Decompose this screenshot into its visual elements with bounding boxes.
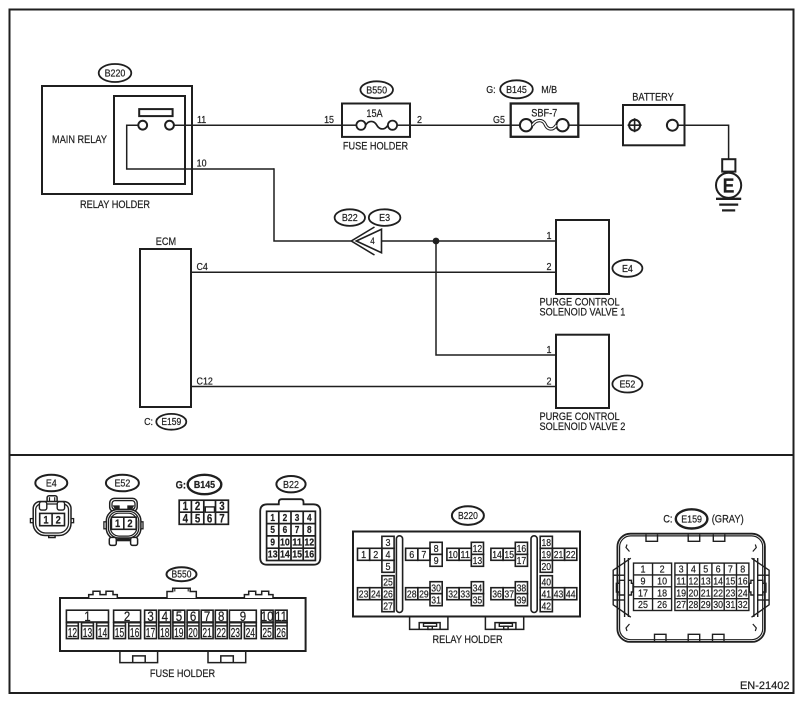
svg-text:41: 41 bbox=[542, 588, 552, 600]
svg-text:13: 13 bbox=[268, 550, 278, 561]
ground circle E bbox=[716, 173, 741, 198]
relay coil bar bbox=[139, 109, 172, 116]
svg-text:B145: B145 bbox=[506, 84, 527, 96]
svg-text:30: 30 bbox=[713, 599, 723, 611]
inline connector arrow symbol pin 4 bbox=[351, 227, 374, 255]
svg-text:14: 14 bbox=[98, 625, 107, 640]
svg-text:E159: E159 bbox=[161, 417, 181, 428]
wire: arrow to solenoid valve 1 pin 1 bbox=[382, 240, 557, 242]
svg-text:MAIN RELAY: MAIN RELAY bbox=[52, 134, 107, 146]
svg-text:C4: C4 bbox=[197, 261, 209, 273]
svg-text:22: 22 bbox=[566, 549, 576, 561]
svg-text:ECM: ECM bbox=[156, 236, 176, 248]
relay holder outer box bbox=[42, 86, 192, 194]
svg-text:SOLENOID VALVE 1: SOLENOID VALVE 1 bbox=[540, 307, 626, 319]
fuse holder B550 pin grid bbox=[66, 610, 108, 622]
svg-text:9: 9 bbox=[641, 576, 646, 588]
connector B22 pin grid bbox=[267, 511, 316, 560]
svg-text:2: 2 bbox=[127, 518, 132, 530]
connector label E4 (pinout) bbox=[35, 475, 67, 492]
connector E52 pin grid bbox=[111, 517, 136, 529]
svg-text:25: 25 bbox=[262, 625, 271, 640]
svg-text:31: 31 bbox=[726, 599, 736, 611]
relay holder B220 pin cells bbox=[382, 536, 394, 548]
svg-text:42: 42 bbox=[542, 600, 552, 612]
svg-text:1: 1 bbox=[183, 501, 189, 513]
ground connector square bbox=[722, 159, 735, 171]
svg-text:13: 13 bbox=[473, 555, 483, 567]
svg-text:15: 15 bbox=[324, 114, 334, 126]
svg-text:39: 39 bbox=[517, 594, 527, 606]
svg-text:12: 12 bbox=[473, 543, 483, 555]
svg-text:23: 23 bbox=[359, 588, 369, 600]
svg-text:14: 14 bbox=[713, 576, 723, 588]
wire: battery to ground E bbox=[678, 125, 729, 159]
svg-text:21: 21 bbox=[701, 587, 711, 599]
svg-text:2: 2 bbox=[124, 609, 130, 624]
svg-text:1: 1 bbox=[641, 564, 646, 576]
svg-text:4: 4 bbox=[183, 513, 189, 525]
svg-text:B22: B22 bbox=[342, 212, 358, 224]
relay holder B220 pinout body bbox=[353, 532, 580, 617]
svg-text:16: 16 bbox=[130, 625, 139, 640]
svg-text:E4: E4 bbox=[622, 263, 633, 275]
svg-text:20: 20 bbox=[689, 587, 699, 599]
svg-text:1: 1 bbox=[115, 518, 120, 530]
svg-text:22: 22 bbox=[217, 625, 226, 640]
svg-text:9: 9 bbox=[270, 537, 275, 548]
svg-text:4: 4 bbox=[370, 236, 375, 247]
svg-text:1: 1 bbox=[361, 549, 366, 561]
svg-text:2: 2 bbox=[417, 114, 422, 126]
svg-text:6: 6 bbox=[190, 609, 196, 624]
fuse holder bottom tabs bbox=[120, 651, 158, 663]
svg-text:2: 2 bbox=[283, 513, 288, 524]
svg-text:24: 24 bbox=[371, 588, 381, 600]
svg-text:7: 7 bbox=[219, 513, 224, 525]
svg-text:29: 29 bbox=[701, 599, 711, 611]
fuse holder box bbox=[342, 104, 410, 137]
svg-text:5: 5 bbox=[386, 561, 391, 573]
svg-text:19: 19 bbox=[542, 549, 552, 561]
svg-text:(GRAY): (GRAY) bbox=[712, 514, 744, 526]
svg-text:11: 11 bbox=[275, 609, 287, 624]
svg-text:26: 26 bbox=[383, 588, 393, 600]
relay holder bottom mount tabs bbox=[410, 617, 448, 630]
battery positive terminal bbox=[629, 120, 640, 131]
svg-text:15: 15 bbox=[504, 549, 514, 561]
svg-text:34: 34 bbox=[473, 582, 483, 594]
svg-text:1: 1 bbox=[84, 609, 90, 624]
svg-text:22: 22 bbox=[713, 587, 723, 599]
svg-text:25: 25 bbox=[383, 576, 393, 588]
svg-text:24: 24 bbox=[738, 587, 748, 599]
svg-text:G:: G: bbox=[176, 479, 186, 491]
relay holder slot bars bbox=[396, 536, 402, 613]
svg-text:8: 8 bbox=[307, 525, 312, 536]
svg-text:16: 16 bbox=[517, 543, 527, 555]
svg-text:3: 3 bbox=[386, 537, 391, 549]
svg-text:18: 18 bbox=[657, 587, 667, 599]
svg-text:29: 29 bbox=[419, 588, 429, 600]
svg-text:E52: E52 bbox=[114, 478, 130, 490]
svg-text:32: 32 bbox=[448, 588, 458, 600]
svg-text:2: 2 bbox=[547, 375, 552, 387]
svg-text:4: 4 bbox=[386, 549, 391, 561]
relay contact pin circle left bbox=[138, 121, 147, 130]
svg-text:E159: E159 bbox=[681, 514, 702, 526]
wire: relay pin 11 to fuse holder pin 15 bbox=[174, 124, 342, 126]
wire: ECM C12 to solenoid valve 2 pin 2 bbox=[191, 386, 556, 388]
svg-text:B550: B550 bbox=[172, 570, 192, 581]
svg-text:38: 38 bbox=[517, 582, 527, 594]
svg-text:3: 3 bbox=[295, 513, 300, 524]
connector label E3 (schematic) bbox=[369, 209, 401, 226]
svg-text:40: 40 bbox=[542, 576, 552, 588]
svg-text:43: 43 bbox=[554, 588, 564, 600]
svg-text:15A: 15A bbox=[366, 108, 383, 120]
svg-text:SOLENOID VALVE 2: SOLENOID VALVE 2 bbox=[540, 421, 626, 433]
svg-text:EN-21402: EN-21402 bbox=[740, 680, 790, 692]
svg-text:12: 12 bbox=[304, 537, 314, 548]
svg-text:12: 12 bbox=[689, 576, 699, 588]
svg-text:18: 18 bbox=[542, 537, 552, 549]
svg-text:16: 16 bbox=[304, 550, 314, 561]
svg-text:26: 26 bbox=[276, 625, 285, 640]
svg-text:18: 18 bbox=[160, 625, 169, 640]
svg-text:27: 27 bbox=[676, 599, 686, 611]
svg-text:31: 31 bbox=[431, 594, 441, 606]
svg-text:6: 6 bbox=[207, 513, 212, 525]
svg-text:16: 16 bbox=[738, 576, 748, 588]
connector E4 pinout body bbox=[30, 496, 73, 538]
wire: fuse holder pin 2 to SBF-7 G5 bbox=[410, 124, 511, 126]
svg-text:5: 5 bbox=[195, 513, 201, 525]
svg-text:17: 17 bbox=[517, 555, 527, 567]
wire: SBF-7 to battery bbox=[578, 124, 623, 126]
connector E159 bottom slots bbox=[655, 634, 667, 641]
connector E159 top slots bbox=[646, 535, 658, 542]
svg-text:11: 11 bbox=[197, 114, 206, 126]
svg-text:14: 14 bbox=[492, 549, 502, 561]
ground symbol bars bbox=[716, 198, 741, 200]
svg-text:8: 8 bbox=[218, 609, 224, 624]
wire: relay left pin to pin 10 run bbox=[127, 125, 274, 169]
svg-text:35: 35 bbox=[473, 594, 483, 606]
svg-text:E3: E3 bbox=[379, 212, 390, 224]
svg-text:5: 5 bbox=[703, 564, 708, 576]
connector E159 right pin grid bbox=[675, 563, 749, 610]
svg-text:14: 14 bbox=[280, 550, 290, 561]
svg-text:13: 13 bbox=[701, 576, 711, 588]
svg-text:10: 10 bbox=[280, 537, 290, 548]
connector E52 pinout body bbox=[104, 498, 143, 545]
connector label B22 (pinout) bbox=[276, 476, 305, 492]
svg-text:28: 28 bbox=[407, 588, 417, 600]
connector label B550 (pinout) bbox=[167, 567, 197, 581]
svg-text:11: 11 bbox=[292, 537, 302, 548]
connector E159 left pin grid bbox=[634, 563, 672, 610]
svg-text:BATTERY: BATTERY bbox=[632, 92, 674, 104]
svg-text:30: 30 bbox=[431, 582, 441, 594]
svg-text:25: 25 bbox=[638, 599, 648, 611]
svg-text:2: 2 bbox=[660, 564, 665, 576]
junction node bbox=[433, 238, 440, 245]
svg-text:20: 20 bbox=[542, 561, 552, 573]
fuse SBF-7 symbol bbox=[511, 124, 520, 126]
main relay inner box bbox=[114, 96, 185, 184]
svg-text:E: E bbox=[723, 175, 735, 198]
main fuse SBF-7 box bbox=[511, 104, 579, 137]
svg-text:15: 15 bbox=[115, 625, 124, 640]
svg-text:G:: G: bbox=[486, 84, 495, 96]
svg-text:21: 21 bbox=[554, 549, 564, 561]
connector label B220 (schematic) bbox=[99, 64, 132, 82]
svg-text:11: 11 bbox=[460, 549, 470, 561]
svg-text:10: 10 bbox=[261, 609, 274, 624]
svg-text:28: 28 bbox=[689, 599, 699, 611]
connector E159 right latch bbox=[749, 545, 769, 632]
svg-text:8: 8 bbox=[740, 564, 745, 576]
svg-text:2: 2 bbox=[547, 261, 552, 273]
svg-text:27: 27 bbox=[383, 600, 393, 612]
connector label B550 (schematic) bbox=[360, 81, 393, 98]
wire: junction down to solenoid valve 2 pin 1 bbox=[436, 241, 556, 355]
svg-text:8: 8 bbox=[434, 543, 439, 555]
svg-text:36: 36 bbox=[492, 588, 502, 600]
svg-text:1: 1 bbox=[547, 230, 552, 242]
svg-text:1: 1 bbox=[43, 514, 48, 526]
svg-text:3: 3 bbox=[219, 501, 224, 513]
svg-text:13: 13 bbox=[83, 625, 92, 640]
connector E159 pinout body bbox=[617, 534, 765, 642]
svg-text:2: 2 bbox=[373, 549, 378, 561]
svg-text:19: 19 bbox=[174, 625, 183, 640]
fuse F1 symbol 15A bbox=[342, 124, 356, 126]
svg-text:20: 20 bbox=[188, 625, 197, 640]
battery negative terminal bbox=[667, 120, 678, 131]
svg-text:17: 17 bbox=[146, 625, 155, 640]
svg-text:FUSE HOLDER: FUSE HOLDER bbox=[343, 140, 408, 152]
connector label B22 (schematic) bbox=[335, 209, 365, 226]
relay contact pin circle right bbox=[165, 121, 174, 130]
svg-text:B22: B22 bbox=[283, 479, 299, 491]
svg-text:B145: B145 bbox=[194, 479, 215, 491]
svg-text:21: 21 bbox=[202, 625, 211, 640]
svg-text:23: 23 bbox=[231, 625, 240, 640]
connector label E52 (pinout) bbox=[106, 475, 139, 492]
svg-text:B550: B550 bbox=[366, 84, 387, 96]
svg-text:32: 32 bbox=[738, 599, 748, 611]
svg-text:3: 3 bbox=[147, 609, 153, 624]
svg-text:G5: G5 bbox=[493, 114, 505, 126]
connector label B220 (pinout) bbox=[452, 506, 484, 525]
connector E4 pin grid bbox=[40, 513, 65, 525]
connector label E4 (schematic) bbox=[612, 260, 642, 277]
svg-text:7: 7 bbox=[421, 549, 426, 561]
svg-text:15: 15 bbox=[726, 576, 736, 588]
svg-text:33: 33 bbox=[460, 588, 470, 600]
svg-text:2: 2 bbox=[56, 514, 61, 526]
wire: pin 10 down to connector arrow bbox=[274, 168, 351, 241]
svg-text:3: 3 bbox=[679, 564, 684, 576]
svg-text:1: 1 bbox=[547, 344, 552, 356]
svg-text:24: 24 bbox=[246, 625, 255, 640]
svg-text:1: 1 bbox=[270, 513, 275, 524]
connector B22 pinout body bbox=[260, 499, 320, 565]
svg-text:9: 9 bbox=[434, 555, 439, 567]
svg-text:B220: B220 bbox=[105, 68, 126, 80]
svg-text:FUSE HOLDER: FUSE HOLDER bbox=[150, 668, 215, 680]
connector B145 pin grid bbox=[179, 500, 228, 524]
svg-text:2: 2 bbox=[195, 501, 200, 513]
svg-text:5: 5 bbox=[176, 609, 182, 624]
svg-text:RELAY HOLDER: RELAY HOLDER bbox=[433, 634, 503, 646]
svg-text:E52: E52 bbox=[619, 379, 635, 391]
svg-text:7: 7 bbox=[295, 525, 300, 536]
svg-text:23: 23 bbox=[726, 587, 736, 599]
svg-text:RELAY HOLDER: RELAY HOLDER bbox=[80, 199, 150, 211]
svg-text:4: 4 bbox=[691, 564, 696, 576]
solenoid valve 2 box bbox=[556, 335, 609, 408]
svg-text:26: 26 bbox=[657, 599, 667, 611]
svg-text:B220: B220 bbox=[458, 511, 478, 522]
ECM box bbox=[140, 249, 191, 407]
connector label E52 (schematic) bbox=[612, 376, 642, 393]
svg-text:10: 10 bbox=[657, 576, 667, 588]
svg-text:5: 5 bbox=[270, 525, 275, 536]
svg-text:C:: C: bbox=[144, 416, 153, 428]
svg-text:10: 10 bbox=[197, 158, 207, 170]
svg-text:7: 7 bbox=[728, 564, 733, 576]
battery box bbox=[623, 105, 685, 145]
svg-text:6: 6 bbox=[716, 564, 721, 576]
svg-text:17: 17 bbox=[638, 587, 648, 599]
svg-text:7: 7 bbox=[204, 609, 210, 624]
svg-text:4: 4 bbox=[162, 609, 169, 624]
svg-text:9: 9 bbox=[240, 609, 246, 624]
fuse holder top bumps bbox=[89, 591, 118, 598]
svg-text:E4: E4 bbox=[46, 478, 57, 490]
fuse holder B550 pinout body bbox=[60, 598, 306, 651]
svg-text:44: 44 bbox=[566, 588, 576, 600]
svg-text:M/B: M/B bbox=[541, 84, 557, 96]
solenoid valve 1 box bbox=[556, 220, 609, 294]
svg-text:37: 37 bbox=[504, 588, 514, 600]
section divider line bbox=[10, 454, 793, 456]
svg-text:10: 10 bbox=[448, 549, 458, 561]
svg-text:C:: C: bbox=[663, 514, 672, 526]
svg-text:6: 6 bbox=[283, 525, 288, 536]
svg-text:SBF-7: SBF-7 bbox=[531, 108, 557, 120]
svg-text:12: 12 bbox=[68, 625, 77, 640]
wire: ECM C4 to solenoid valve 1 pin 2 bbox=[191, 271, 556, 273]
svg-text:11: 11 bbox=[676, 576, 686, 588]
svg-text:19: 19 bbox=[676, 587, 686, 599]
svg-text:15: 15 bbox=[292, 550, 302, 561]
svg-text:4: 4 bbox=[307, 513, 312, 524]
connector E159 left latch bbox=[613, 545, 633, 632]
svg-text:6: 6 bbox=[409, 549, 414, 561]
